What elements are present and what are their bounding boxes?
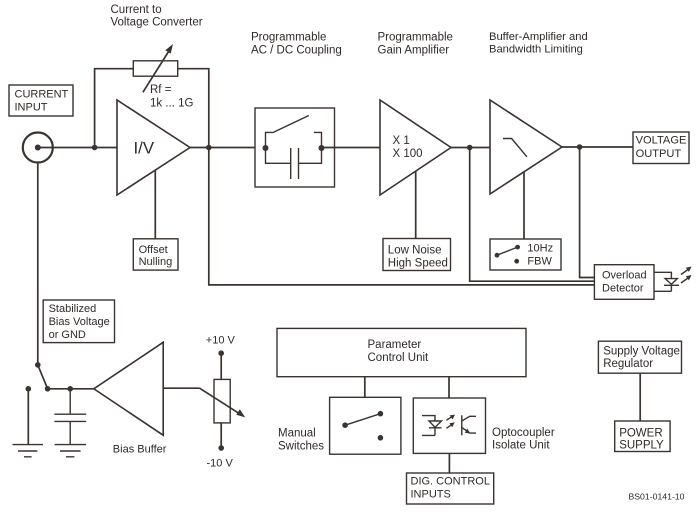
svg-text:Optocoupler: Optocoupler: [492, 427, 555, 439]
node: I/V output junction: [206, 145, 212, 151]
svg-text:Bandwidth Limiting: Bandwidth Limiting: [489, 44, 583, 56]
connector: BNC current input: [23, 133, 53, 163]
resistor: bias divider: [214, 379, 230, 423]
svg-text:Bias Voltage: Bias Voltage: [49, 316, 110, 328]
box POWER SUPPLY: [615, 421, 670, 452]
wire: I/V to offset nulling: [154, 171, 156, 239]
wire: input to I/V: [38, 147, 117, 149]
node: GND contact: [26, 386, 32, 392]
wire: feedback loop: [95, 69, 209, 148]
LED overload indicator: [654, 272, 671, 291]
svg-text:DIG. CONTROL: DIG. CONTROL: [411, 476, 490, 488]
svg-text:Isolate Unit: Isolate Unit: [492, 440, 550, 452]
arrow of variable resistor Rf: [143, 52, 169, 93]
switch in 10Hz box: [495, 253, 500, 258]
svg-text:I/V: I/V: [134, 139, 155, 158]
svg-text:Detector: Detector: [602, 283, 644, 295]
svg-text:Regulator: Regulator: [603, 358, 653, 370]
wire: PCU to manual switches: [364, 377, 366, 398]
op-amp buffer amplifier: [490, 100, 562, 194]
svg-text:Nulling: Nulling: [139, 256, 173, 268]
wire: buffer to output: [562, 146, 633, 148]
svg-text:Switches: Switches: [278, 441, 324, 453]
wire: BNC down to bias switch: [37, 162, 39, 365]
wire: buffer output to overload detector: [580, 147, 595, 278]
svg-text:Voltage Converter: Voltage Converter: [111, 17, 203, 29]
op-amp PGA: [380, 100, 451, 195]
box Manual Switches: [330, 397, 401, 454]
op-amp I/V converter: [117, 100, 190, 195]
node: coupling left: [263, 145, 269, 151]
svg-text:Low Noise: Low Noise: [388, 245, 442, 257]
svg-text:+10 V: +10 V: [206, 335, 236, 347]
box Overload Detector: [594, 265, 654, 300]
svg-text:POWER: POWER: [619, 427, 662, 439]
wire: optocoupler to digital inputs: [448, 453, 450, 473]
svg-text:X 100: X 100: [393, 148, 423, 160]
svg-text:FBW: FBW: [527, 256, 552, 268]
node: buffer output junction: [577, 144, 583, 150]
svg-text:VOLTAGE: VOLTAGE: [636, 134, 687, 146]
node: capacitor junction: [67, 386, 73, 392]
wire: I/V output to overload detector: [209, 148, 595, 285]
svg-text:INPUT: INPUT: [15, 102, 48, 114]
svg-text:Rf =: Rf =: [150, 84, 172, 96]
svg-text:Manual: Manual: [278, 428, 316, 440]
wire: bias switch to buffer: [48, 388, 94, 390]
svg-text:Programmable: Programmable: [251, 32, 326, 44]
svg-text:Buffer-Amplifier and: Buffer-Amplifier and: [489, 31, 588, 43]
op-amp bias buffer (points left): [94, 342, 163, 435]
wire: regulator to power supply: [639, 373, 641, 421]
node: PGA output junction: [467, 145, 473, 151]
svg-text:SUPPLY: SUPPLY: [619, 440, 664, 452]
svg-text:CURRENT: CURRENT: [15, 89, 69, 101]
resistor Rf (variable feedback resistor): [133, 61, 177, 76]
node: feedback junction at input: [92, 145, 98, 151]
switch: DC coupling switch: [266, 116, 322, 149]
svg-text:Current to: Current to: [111, 4, 162, 16]
svg-text:AC / DC Coupling: AC / DC Coupling: [251, 45, 342, 57]
box Parameter Control Unit: [277, 328, 526, 376]
-10 V supply: [220, 423, 222, 448]
box Supply Voltage Regulator: [598, 341, 681, 373]
wire: bias buffer input from divider: [163, 387, 199, 389]
wire: PCU to optocoupler: [448, 377, 450, 398]
svg-text:Overload: Overload: [602, 269, 647, 281]
svg-text:Supply Voltage: Supply Voltage: [603, 345, 680, 357]
capacitor: AC coupling capacitor: [266, 148, 322, 179]
box Low Noise High Speed: [383, 239, 451, 271]
box: programmable AC/DC coupling: [255, 108, 335, 187]
svg-text:Control Unit: Control Unit: [368, 352, 430, 364]
wire: PGA output to overload detector: [470, 148, 595, 282]
svg-text:Parameter: Parameter: [368, 339, 422, 351]
svg-text:High Speed: High Speed: [388, 257, 448, 269]
node: coupling right: [319, 145, 325, 151]
box DIG. CONTROL INPUTS: [407, 473, 494, 504]
svg-text:Bias Buffer: Bias Buffer: [113, 443, 167, 455]
svg-text:Stabilized: Stabilized: [49, 303, 97, 315]
capacitor: bias filter: [54, 389, 86, 444]
svg-text:INPUTS: INPUTS: [411, 488, 451, 500]
wire: coupling to PGA: [322, 147, 381, 149]
wire: buffer to 10Hz box: [523, 172, 525, 239]
svg-text:10Hz: 10Hz: [527, 243, 553, 255]
box VOLTAGE OUTPUT: [633, 132, 689, 164]
arrow: potentiometer wiper: [200, 388, 240, 414]
svg-text:-10 V: -10 V: [207, 457, 234, 469]
ground (left): [13, 445, 44, 457]
switch: manual switch symbol: [342, 422, 348, 428]
svg-text:Programmable: Programmable: [378, 32, 453, 44]
ground (capacitor): [55, 445, 86, 457]
wire: PGA to low noise box: [415, 171, 417, 239]
wire: I/V output to AC/DC coupling: [190, 147, 266, 149]
LED light arrows: [681, 270, 688, 275]
lowpass response glyph: [503, 139, 527, 157]
optocoupler phototransistor: [462, 415, 476, 435]
box Stabilized Bias Voltage or GND: [43, 300, 114, 343]
svg-text:Offset: Offset: [139, 244, 168, 256]
switch: bias select lever: [35, 362, 41, 368]
svg-text:1k ... 1G: 1k ... 1G: [150, 98, 194, 110]
svg-text:Gain Amplifier: Gain Amplifier: [378, 45, 450, 57]
svg-text:X 1: X 1: [393, 135, 410, 147]
box Offset Nulling: [133, 239, 178, 270]
box CURRENT INPUT: [9, 85, 73, 116]
svg-text:BS01-0141-10: BS01-0141-10: [628, 492, 684, 502]
box Optocoupler Isolate Unit: [413, 398, 485, 453]
optocoupler light arrows: [446, 417, 452, 421]
svg-text:or GND: or GND: [49, 329, 86, 341]
wire: PGA to buffer: [451, 147, 490, 149]
box 10Hz / FBW selector: [490, 239, 561, 270]
svg-text:OUTPUT: OUTPUT: [636, 148, 682, 160]
optocoupler LED: [422, 416, 435, 436]
